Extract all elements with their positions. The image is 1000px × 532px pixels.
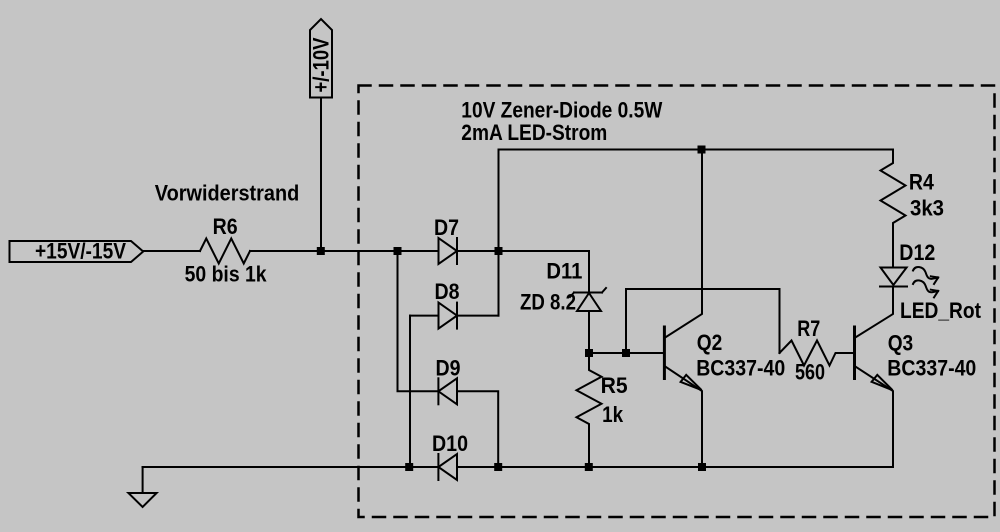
svg-text:D9: D9 xyxy=(436,356,461,381)
svg-text:+15V/-15V: +15V/-15V xyxy=(35,239,126,264)
svg-text:3k3: 3k3 xyxy=(910,196,944,221)
svg-text:2mA LED-Strom: 2mA LED-Strom xyxy=(461,120,607,145)
svg-text:Q3: Q3 xyxy=(888,330,914,355)
svg-text:R7: R7 xyxy=(797,316,820,341)
svg-text:Q2: Q2 xyxy=(697,330,723,355)
svg-text:R5: R5 xyxy=(601,373,628,398)
svg-text:D12: D12 xyxy=(899,240,935,265)
svg-text:50 bis 1k: 50 bis 1k xyxy=(185,262,267,287)
svg-text:+/-10V: +/-10V xyxy=(309,38,334,93)
svg-text:ZD 8.2: ZD 8.2 xyxy=(520,290,576,315)
svg-text:D7: D7 xyxy=(434,215,459,240)
svg-text:BC337-40: BC337-40 xyxy=(696,356,785,381)
svg-text:LED_Rot: LED_Rot xyxy=(900,298,981,323)
svg-text:1k: 1k xyxy=(602,402,623,427)
svg-text:R6: R6 xyxy=(213,214,238,239)
svg-text:D10: D10 xyxy=(432,431,468,456)
svg-text:560: 560 xyxy=(795,360,825,385)
svg-text:D8: D8 xyxy=(435,279,460,304)
svg-text:Vorwiderstrand: Vorwiderstrand xyxy=(155,180,299,205)
svg-text:D11: D11 xyxy=(546,259,582,284)
svg-text:R4: R4 xyxy=(909,170,934,195)
svg-text:10V Zener-Diode 0.5W: 10V Zener-Diode 0.5W xyxy=(461,98,663,123)
svg-text:BC337-40: BC337-40 xyxy=(887,356,976,381)
